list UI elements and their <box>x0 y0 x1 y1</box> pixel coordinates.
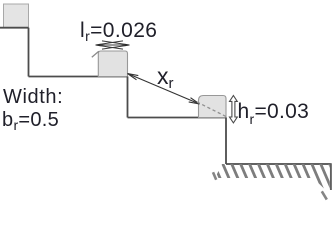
hatched wall section <box>204 162 336 202</box>
label x_r <box>157 63 174 90</box>
hatch stray stroke left <box>213 172 216 180</box>
wall section right border <box>330 164 332 191</box>
dashed flow line through rib R2 <box>197 102 226 117</box>
label h_r=0.03 <box>238 100 310 124</box>
dimension arrow for rib length l_r <box>96 41 130 49</box>
wire: step wall 1 <box>127 77 129 118</box>
wire: floor 2 <box>128 117 227 119</box>
hollow height arrow for h_r <box>230 96 238 123</box>
wire: step wall 0 <box>28 28 30 77</box>
label l_r=0.026 <box>80 19 157 43</box>
wire: step wall 2 <box>225 118 227 165</box>
hatch stray stroke bottom-right <box>322 191 327 199</box>
corner tick at rib R1 <box>92 51 99 57</box>
rib R2 on floor 2 <box>199 96 227 118</box>
rib R1 on floor 1 <box>98 51 127 77</box>
reattachment arrow x_r (double-headed) <box>128 74 200 105</box>
wire: floor 1 <box>29 76 128 78</box>
label Width: <box>3 86 63 109</box>
label b_r=0.5 <box>2 109 59 132</box>
inlet block (top-left) <box>4 4 29 28</box>
wire: floor 3 <box>226 163 332 165</box>
wire: top floor surface <box>0 27 29 29</box>
